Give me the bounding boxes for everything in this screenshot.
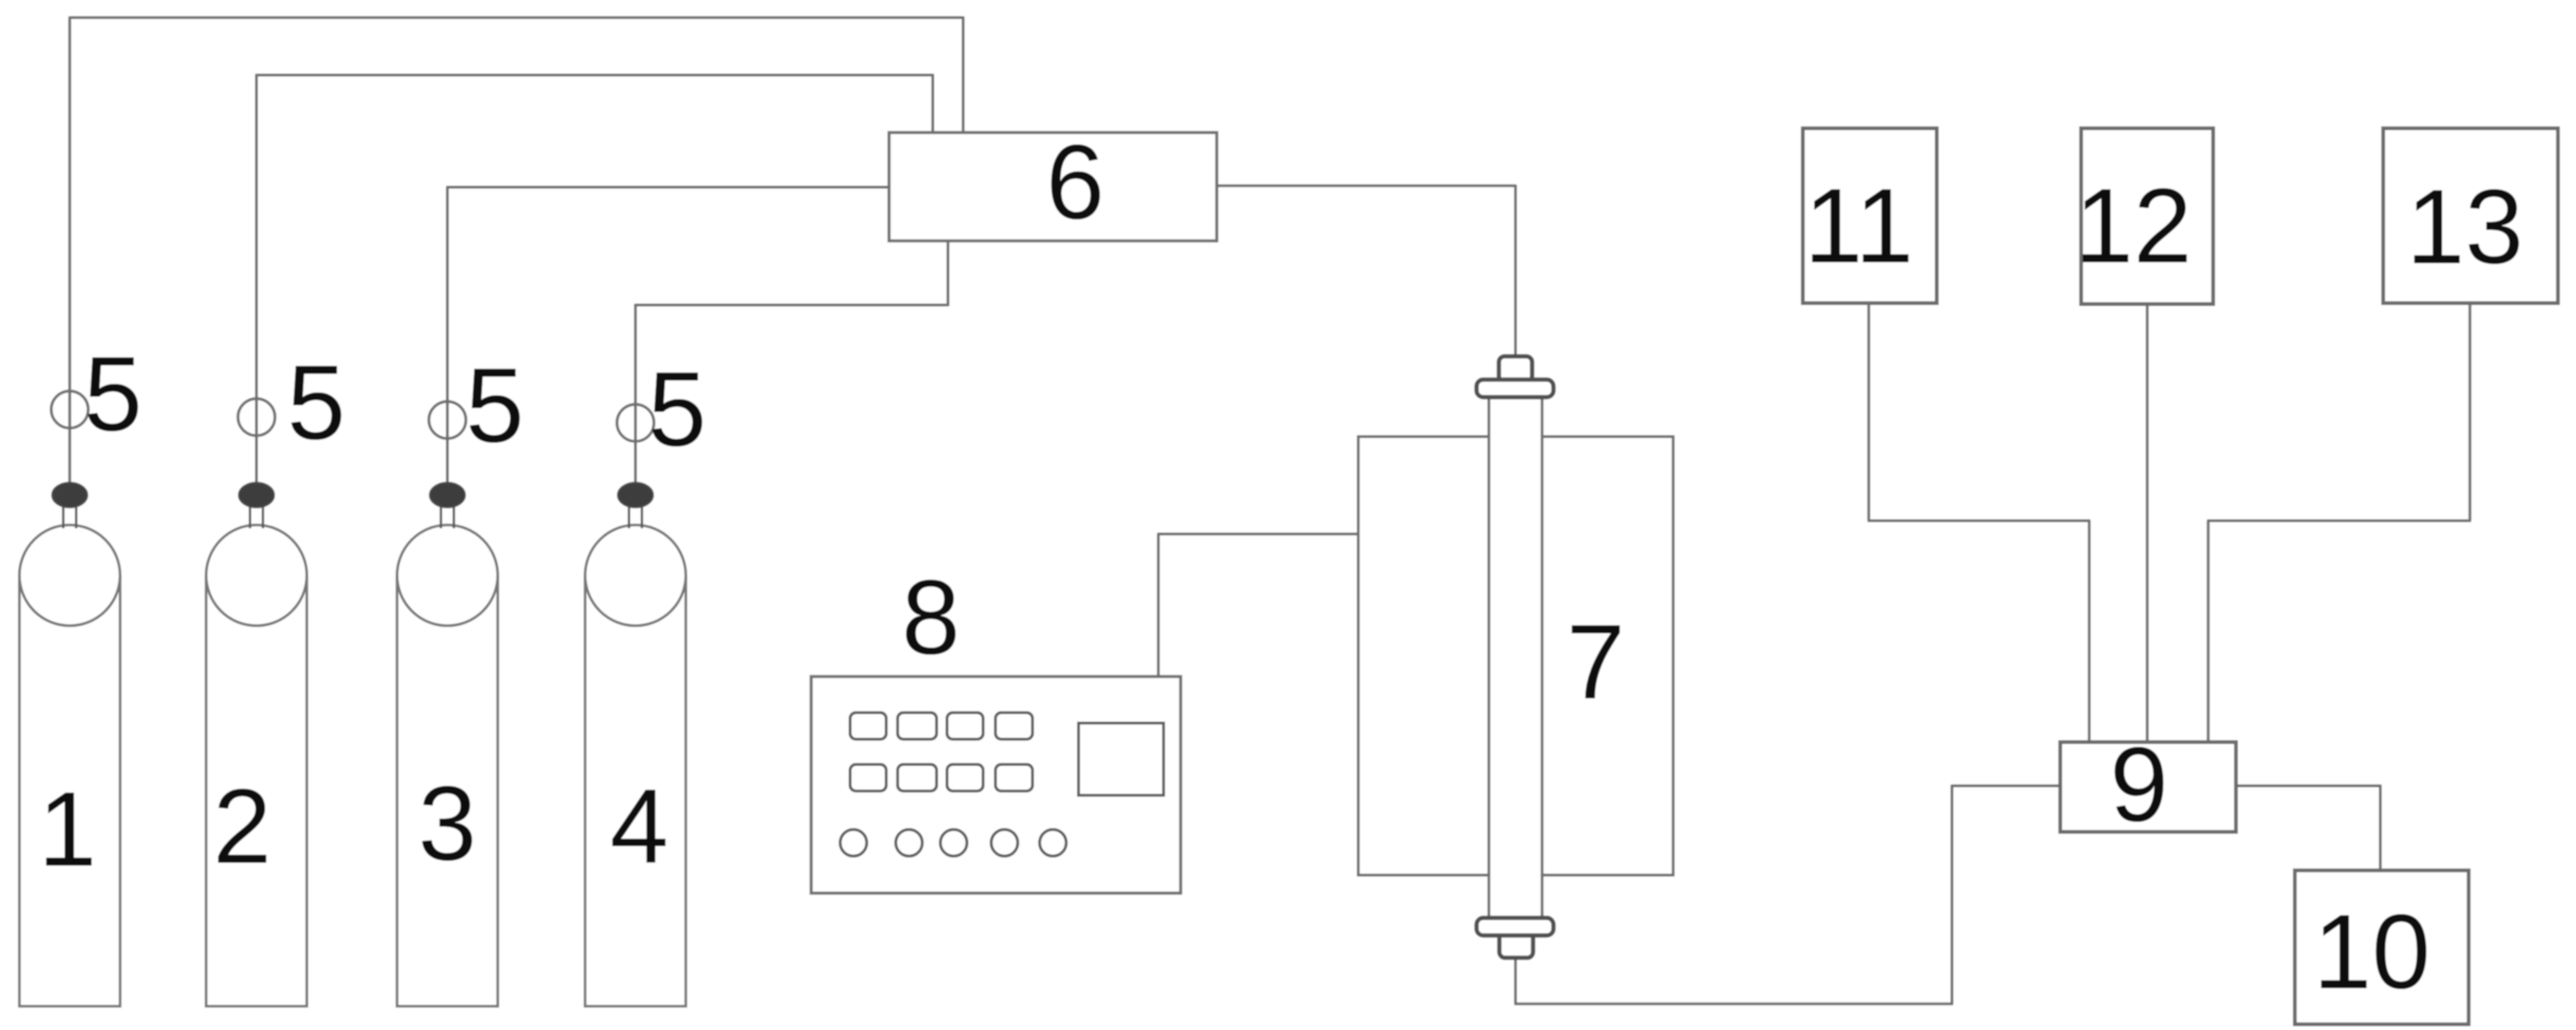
wire from controller 8 top to furnace 7 left side: [1159, 534, 1359, 677]
cylinder 1 neck: [64, 506, 77, 528]
svg-text:9: 9: [2110, 726, 2169, 844]
svg-text:11: 11: [1804, 167, 1913, 285]
box 11: [1803, 128, 1937, 303]
flow meter 5 on cylinder 1 line: [51, 391, 88, 429]
box 10: [2295, 870, 2469, 1024]
cylinder 2 valve knob: [239, 483, 275, 507]
reactor tube top inlet cap: [1499, 356, 1532, 382]
svg-text:1: 1: [38, 771, 97, 888]
wire from cylinder 3 valve to mixer 6 left side: [447, 187, 889, 484]
wire from cylinder 1 valve up and over to mixer 6 top: [69, 18, 963, 485]
wire from box 13 bottom to box 9 top: [2208, 303, 2471, 742]
controller 8 display window: [1079, 723, 1165, 795]
box 12: [2081, 128, 2213, 304]
svg-text:5: 5: [84, 335, 142, 453]
flow meter 5 on cylinder 2 line: [238, 399, 275, 436]
reactor tube body fill: [1489, 384, 1543, 931]
wire from box 11 bottom to box 9 top: [1868, 303, 2089, 742]
gas cylinder 4 body: [585, 576, 686, 1007]
wire from mixer 6 right side to reactor tube 7 top: [1217, 186, 1516, 358]
gas cylinder 1 body: [19, 576, 120, 1007]
controller 8 indicator lamp 3: [940, 830, 967, 856]
cylinder 4 valve knob: [618, 483, 653, 507]
cylinder 3 valve knob: [430, 483, 465, 507]
svg-text:2: 2: [213, 768, 272, 886]
svg-text:3: 3: [418, 765, 477, 883]
svg-text:5: 5: [287, 344, 346, 462]
reactor tube bottom flange: [1477, 918, 1554, 936]
cylinder 2 neck: [250, 506, 263, 528]
flow meter 5 on cylinder 3 line: [429, 402, 466, 439]
svg-text:5: 5: [465, 347, 524, 465]
controller 8 button row 2 button 3: [947, 765, 983, 792]
controller 8 indicator lamp 5: [1040, 830, 1067, 856]
controller 8 indicator lamp 1: [841, 830, 867, 856]
svg-text:8: 8: [901, 559, 960, 677]
gas cylinder 3 body: [397, 576, 498, 1007]
controller 8 button row 2 button 2: [898, 765, 937, 792]
gas cylinder 3 dome: [397, 525, 498, 626]
wire from cylinder 4 valve to mixer 6 bottom: [635, 241, 948, 485]
cylinder 4 neck: [629, 506, 642, 528]
svg-text:7: 7: [1566, 603, 1625, 721]
reactor tube bottom outlet cap: [1500, 932, 1534, 958]
flow meter 5 on cylinder 4 line: [617, 405, 654, 442]
gas cylinder 1 dome: [19, 525, 120, 626]
controller 8 button row 2 button 4: [995, 765, 1032, 792]
gas mixer box 6: [889, 133, 1217, 241]
controller 8 indicator lamp 4: [992, 830, 1018, 856]
controller 8 button row 2 button 1: [850, 765, 886, 792]
svg-text:13: 13: [2406, 168, 2523, 286]
svg-text:12: 12: [2074, 167, 2191, 285]
wire from cylinder 2 valve up and over to mixer 6 top: [256, 75, 933, 484]
reactor tube right wall: [1541, 390, 1544, 925]
svg-text:5: 5: [648, 351, 707, 468]
controller 8 button row 1 button 3: [947, 713, 983, 739]
furnace box of reactor 7: [1358, 437, 1674, 876]
cylinder 1 valve knob: [52, 483, 87, 507]
svg-text:4: 4: [610, 768, 669, 886]
reactor tube top flange: [1477, 380, 1554, 398]
cylinder 3 neck: [441, 506, 454, 528]
gas cylinder 4 dome: [585, 525, 686, 626]
svg-text:6: 6: [1046, 124, 1105, 241]
wire from box 9 right side to box 10 top: [2236, 786, 2380, 870]
reactor tube left wall: [1487, 390, 1490, 925]
box 13: [2383, 128, 2558, 303]
controller 8 button row 1 button 4: [995, 713, 1032, 739]
controller 8 button row 1 button 2: [898, 713, 937, 739]
gas cylinder 2 body: [206, 576, 307, 1007]
controller 8 button row 1 button 1: [850, 713, 886, 739]
controller 8 indicator lamp 2: [896, 830, 922, 856]
box 9: [2060, 742, 2236, 832]
wire from reactor tube 7 bottom outlet to box 9 left side: [1516, 786, 2061, 1004]
gas cylinder 2 dome: [206, 525, 307, 626]
wire from box 12 bottom to box 9 top: [2146, 304, 2149, 742]
controller box 8: [811, 677, 1181, 893]
svg-text:10: 10: [2313, 893, 2430, 1011]
